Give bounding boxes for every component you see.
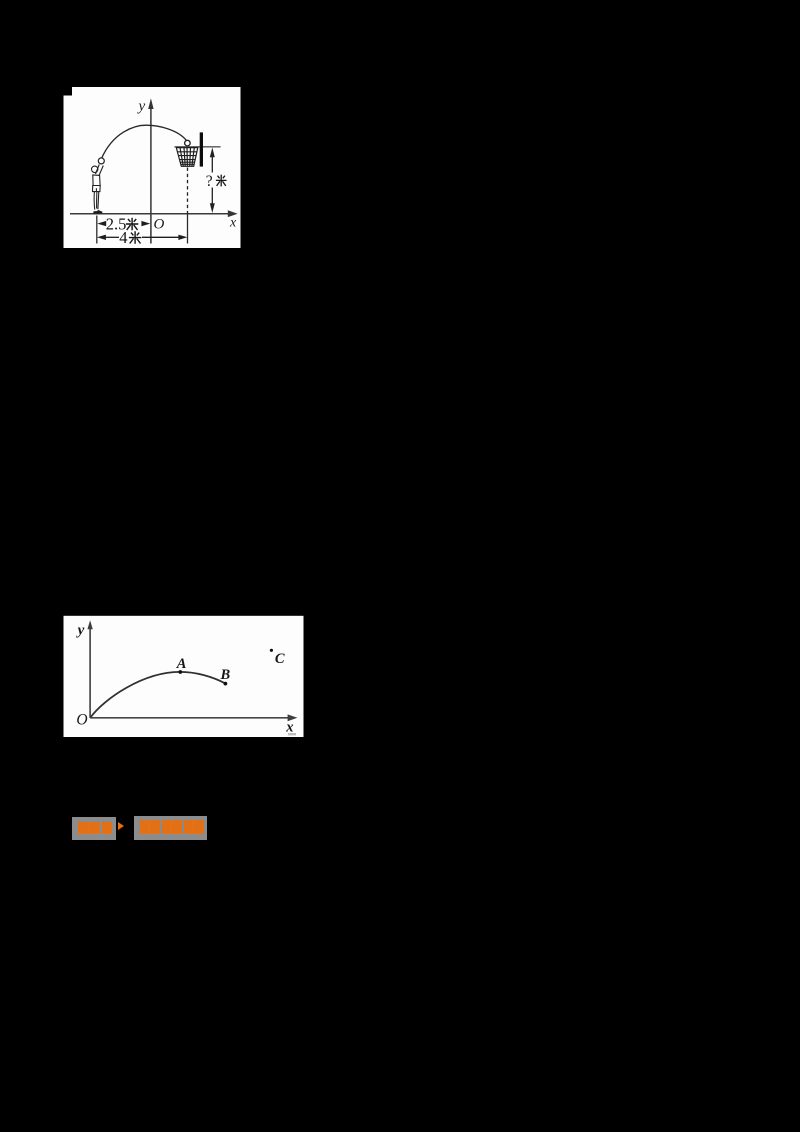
svg-text:?: ? xyxy=(206,173,213,190)
svg-text:C: C xyxy=(275,651,285,667)
net strands xyxy=(180,148,194,167)
svg-text:B: B xyxy=(220,667,231,683)
svg-text:O: O xyxy=(76,711,87,728)
?米 dimension arrow xyxy=(211,156,213,205)
hoop rim reference line xyxy=(174,146,220,148)
figure 2: O-A-B-C curve diagram xyxy=(63,615,304,737)
y-axis xyxy=(150,108,152,244)
米 glyph of ?米 xyxy=(216,175,227,187)
person legs xyxy=(94,192,99,210)
point B xyxy=(224,682,228,686)
米 glyph of 2.5米 xyxy=(126,218,138,231)
x-axis xyxy=(90,717,288,719)
white figure box with stepped top-left corner xyxy=(64,87,241,248)
person feet xyxy=(93,211,99,214)
米 glyph of 4米 xyxy=(129,231,141,244)
figure 1: basketball shot diagram xyxy=(63,87,241,248)
2.5米 dimension xyxy=(97,221,106,226)
x-axis xyxy=(70,213,230,215)
y-axis xyxy=(89,628,91,718)
point A xyxy=(178,670,182,674)
ball in hands xyxy=(98,158,104,164)
person torso xyxy=(93,175,100,186)
svg-text:y: y xyxy=(137,99,146,115)
dashed drop line xyxy=(187,168,189,214)
small gray mark under x xyxy=(288,733,296,735)
svg-text:4: 4 xyxy=(119,228,127,247)
curve O to B through A xyxy=(91,672,226,718)
net cross lines xyxy=(177,152,197,165)
tick below hoop xyxy=(187,214,189,244)
net outline xyxy=(176,148,198,167)
parabola trajectory xyxy=(102,125,187,158)
svg-text:y: y xyxy=(76,622,85,638)
svg-text:x: x xyxy=(285,719,293,735)
svg-text:x: x xyxy=(229,216,237,231)
person head xyxy=(92,166,98,172)
orange heading: gray block 1 xyxy=(72,817,116,840)
left tick at person feet xyxy=(96,216,98,244)
point C xyxy=(270,649,273,652)
person arms xyxy=(96,165,104,177)
orange heading: gray block 2 xyxy=(134,816,207,840)
person shorts xyxy=(93,186,101,192)
orange heading characters block 2 xyxy=(139,820,149,834)
ball at hoop xyxy=(185,140,191,146)
orange heading characters block 1 xyxy=(78,821,89,833)
svg-text:A: A xyxy=(176,656,187,672)
backboard xyxy=(200,132,203,166)
4米 dimension xyxy=(97,235,106,240)
orange heading arrow mark xyxy=(118,822,124,830)
svg-text:O: O xyxy=(154,217,165,233)
white figure box xyxy=(64,616,304,737)
